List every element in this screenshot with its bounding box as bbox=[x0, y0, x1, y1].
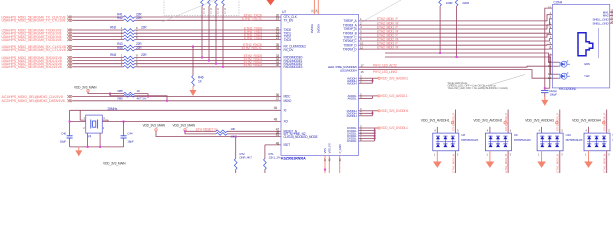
resistor R72 DNP_4K7 bbox=[234, 159, 237, 170]
wire bbox=[73, 32, 124, 34]
svg-text:22R: 22R bbox=[136, 46, 142, 50]
separator line bbox=[597, 28, 599, 58]
svg-text:22R: 22R bbox=[141, 53, 147, 57]
svg-text:12: 12 bbox=[548, 64, 552, 68]
LED green bbox=[552, 61, 558, 63]
junction bbox=[99, 146, 101, 148]
wire bbox=[135, 35, 282, 37]
wire stub top-left bbox=[489, 127, 491, 133]
wire to port bbox=[373, 95, 379, 97]
svg-text:YELLOW_LED: OFF = No activity: YELLOW_LED: OFF = No activity BLINKING =… bbox=[448, 86, 509, 90]
wire bbox=[264, 145, 266, 159]
wire bbox=[135, 66, 282, 68]
wire MDI stub bottom-right bbox=[507, 151, 509, 173]
svg-text:ETH2_MDI0_M: ETH2_MDI0_M bbox=[603, 153, 607, 172]
ground bbox=[78, 147, 80, 151]
wire bbox=[362, 35, 552, 38]
svg-text:PRTR5V0U2X: PRTR5V0U2X bbox=[566, 138, 583, 142]
svg-text:DVDDH: DVDDH bbox=[347, 114, 357, 118]
svg-text:RX_DV: RX_DV bbox=[284, 48, 295, 52]
wire bbox=[362, 19, 552, 25]
svg-text:VDD_3V3_DVDDH1: VDD_3V3_DVDDH1 bbox=[381, 109, 409, 113]
pin stub bbox=[359, 24, 363, 26]
svg-text:U10: U10 bbox=[566, 133, 572, 137]
pin stub bbox=[359, 40, 363, 42]
wire bbox=[362, 25, 552, 29]
svg-text:22R: 22R bbox=[136, 16, 142, 20]
svg-text:VDD_3V3_AVDDH3: VDD_3V3_AVDDH3 bbox=[525, 119, 554, 123]
wire bbox=[73, 16, 124, 18]
wire MDI stub top-right bbox=[559, 110, 561, 134]
svg-text:GRN: GRN bbox=[584, 62, 590, 66]
svg-text:25MHz: 25MHz bbox=[108, 107, 118, 111]
svg-text:18pF: 18pF bbox=[127, 140, 134, 144]
svg-text:MDIO: MDIO bbox=[284, 99, 292, 103]
bottom ground pins bbox=[324, 155, 326, 173]
svg-text:ETH2_MDI2_M: ETH2_MDI2_M bbox=[504, 153, 508, 172]
svg-text:U7: U7 bbox=[282, 10, 286, 14]
svg-text:R88: R88 bbox=[117, 89, 123, 93]
crystal Y4 25MHz bbox=[86, 115, 103, 133]
svg-text:PHY2_LED_LINK2: PHY2_LED_LINK2 bbox=[373, 70, 398, 74]
svg-text:DNP_4K7: DNP_4K7 bbox=[240, 156, 253, 160]
wire bbox=[201, 6, 203, 58]
svg-text:4K7 1%: 4K7 1% bbox=[137, 97, 147, 101]
connector CON4 box bbox=[552, 4, 609, 88]
wire bbox=[73, 39, 124, 41]
wire bbox=[135, 94, 149, 97]
svg-text:CON4: CON4 bbox=[554, 0, 563, 4]
wire bbox=[456, 6, 458, 57]
svg-text:RXD3/MODE3: RXD3/MODE3 bbox=[284, 65, 303, 69]
svg-text:ISET: ISET bbox=[284, 143, 291, 147]
svg-text:U5A/HPS_MDI2_5E1RGMII_RXD3/1V8: U5A/HPS_MDI2_5E1RGMII_RXD3/1V8 bbox=[2, 65, 62, 69]
resistor LED pullup 220R (cut) bbox=[455, 0, 458, 6]
wire reset bbox=[185, 130, 216, 132]
strap resistor (cut) bbox=[208, 0, 211, 6]
wire XI rail bbox=[70, 109, 281, 111]
ESD diode array U10 PRTR5V0U2X bbox=[537, 133, 563, 151]
svg-text:PRTR5V0U2X: PRTR5V0U2X bbox=[514, 138, 531, 142]
svg-text:14: 14 bbox=[548, 76, 552, 80]
bottom rail bbox=[70, 146, 124, 148]
pin stub bbox=[359, 36, 363, 38]
pin stub bbox=[359, 20, 363, 22]
wire stub top-left bbox=[541, 127, 543, 133]
svg-text:U5A/HPS_MDI2_5E1RGMII_TX_CTL/1: U5A/HPS_MDI2_5E1RGMII_TX_CTL/1V8 bbox=[2, 19, 66, 23]
svg-text:U8: U8 bbox=[461, 133, 465, 137]
svg-text:VSS_PS: VSS_PS bbox=[328, 143, 332, 153]
junction bbox=[439, 52, 441, 54]
resistor LED pullup 220R (cut) bbox=[439, 0, 442, 6]
wire bbox=[73, 66, 124, 68]
wire bbox=[362, 29, 552, 34]
junction bbox=[147, 96, 149, 98]
wire bbox=[385, 57, 552, 74]
junction bbox=[192, 46, 194, 48]
resistor R41 22R bbox=[124, 16, 135, 19]
svg-text:23: 23 bbox=[276, 36, 280, 40]
strap resistor (cut) bbox=[222, 0, 225, 6]
wire pin1 bbox=[80, 110, 86, 120]
wire bbox=[362, 39, 552, 41]
wire XO rail bbox=[70, 121, 281, 123]
wire bbox=[135, 16, 282, 18]
svg-text:VDD_3V3_MAIN: VDD_3V3_MAIN bbox=[103, 162, 126, 166]
svg-text:ETH2_TXCTL: ETH2_TXCTL bbox=[242, 17, 262, 21]
pin stub bbox=[359, 32, 363, 34]
resistor R43 22R bbox=[124, 45, 135, 48]
junction bbox=[235, 136, 237, 138]
svg-text:ETH2_MDI1_M: ETH2_MDI1_M bbox=[556, 153, 560, 172]
junction bbox=[109, 93, 111, 95]
resistor R71 12K1 1% bbox=[264, 159, 267, 170]
svg-text:DVDDL: DVDDL bbox=[347, 139, 357, 143]
resistor R89 1K bbox=[124, 94, 135, 97]
wire pin4 bbox=[99, 133, 101, 147]
svg-text:15: 15 bbox=[361, 70, 365, 74]
svg-text:C44: C44 bbox=[127, 132, 133, 136]
wire bbox=[73, 19, 124, 21]
resistor R45 22R bbox=[124, 48, 135, 51]
svg-text:VDD_3V3_MAIN: VDD_3V3_MAIN bbox=[173, 124, 196, 128]
wire bbox=[73, 35, 124, 37]
wire bbox=[208, 6, 210, 61]
wire bbox=[385, 53, 552, 62]
wire bbox=[73, 57, 124, 59]
resistor network RN3 4x22R bbox=[124, 56, 135, 59]
ESD diode array U9 PRTR5V0U2X bbox=[485, 133, 511, 151]
pin stub bbox=[359, 48, 363, 50]
svg-text:46: 46 bbox=[274, 106, 278, 110]
LED yellow bbox=[552, 73, 558, 75]
wire bbox=[235, 137, 237, 159]
svg-text:AVDDL: AVDDL bbox=[347, 97, 357, 101]
wire to port bbox=[373, 77, 379, 79]
svg-text:KRJ-320DNL: KRJ-320DNL bbox=[559, 87, 577, 91]
callout diagonal bbox=[362, 0, 401, 22]
resistor R47 10K bbox=[216, 130, 227, 133]
svg-text:VDD_3V3_AVDDH1: VDD_3V3_AVDDH1 bbox=[381, 76, 408, 80]
svg-text:KSZ9031RNXIA: KSZ9031RNXIA bbox=[281, 156, 306, 160]
wire bbox=[362, 15, 552, 21]
svg-text:R42: R42 bbox=[117, 16, 123, 20]
junction bbox=[222, 66, 224, 68]
svg-text:VDD_1V2_DVDDL1: VDD_1V2_DVDDL1 bbox=[381, 126, 408, 130]
wire to port bbox=[373, 110, 379, 112]
wire bbox=[135, 96, 168, 101]
wire bbox=[135, 60, 282, 62]
wire MDI stub top-right bbox=[455, 110, 457, 134]
wire ISET bbox=[265, 144, 281, 146]
junction bbox=[215, 63, 217, 65]
svg-text:AC2/HPS_MDIO_5E1@MDIO_DATA/1V8: AC2/HPS_MDIO_5E1@MDIO_DATA/1V8 bbox=[2, 99, 65, 103]
svg-text:DVDDH: DVDDH bbox=[310, 24, 314, 33]
ESD diode array U8 PRTR5V0U2X bbox=[433, 133, 459, 151]
wire bbox=[192, 47, 194, 76]
wire to port bbox=[375, 127, 378, 129]
wire bbox=[362, 48, 552, 50]
svg-text:VDD_3V3_AVDDH2: VDD_3V3_AVDDH2 bbox=[473, 119, 502, 123]
svg-text:10K: 10K bbox=[231, 127, 236, 131]
wire bbox=[73, 63, 124, 65]
svg-text:37: 37 bbox=[276, 97, 280, 101]
svg-text:ETH2_RXD3: ETH2_RXD3 bbox=[244, 63, 263, 67]
ground bbox=[436, 151, 438, 162]
wire bbox=[135, 32, 282, 34]
wire stub top-left bbox=[436, 127, 438, 133]
wire bbox=[135, 39, 282, 41]
wire MDI stub bottom-right bbox=[559, 151, 561, 173]
capacitor C42 bbox=[541, 89, 549, 91]
svg-text:VDD_3V3_AVDDH1: VDD_3V3_AVDDH1 bbox=[421, 119, 450, 123]
wire bbox=[215, 6, 217, 64]
power symbol (cut) bbox=[267, 0, 275, 5]
resistor R46 1K bbox=[192, 76, 195, 87]
pin stub bbox=[359, 44, 363, 46]
svg-text:U5A/HPS_MDI2_5E1RGMII_TXD3/1V8: U5A/HPS_MDI2_5E1RGMII_TXD3/1V8 bbox=[2, 38, 62, 42]
ground bbox=[489, 151, 491, 162]
svg-text:30: 30 bbox=[276, 63, 280, 67]
strap resistor (cut) bbox=[201, 0, 204, 6]
resistor R88 1K bbox=[124, 92, 135, 95]
svg-text:PRTR5V0U2X: PRTR5V0U2X bbox=[461, 138, 478, 142]
svg-text:P_GND: P_GND bbox=[338, 144, 342, 153]
junction bbox=[456, 56, 458, 58]
wire bbox=[135, 57, 282, 59]
op IC U7 KSZ9031RNXIA box bbox=[281, 14, 359, 155]
svg-text:U9: U9 bbox=[514, 133, 518, 137]
svg-text:U5A/HPS_MDI2_5E1RGMII_RX_CTL/1: U5A/HPS_MDI2_5E1RGMII_RX_CTL/1V8 bbox=[2, 48, 66, 52]
wire bbox=[222, 6, 224, 67]
svg-text:48: 48 bbox=[274, 117, 278, 121]
wire bbox=[362, 44, 552, 47]
junction bbox=[87, 146, 89, 148]
ground bbox=[192, 87, 194, 91]
wire bbox=[73, 100, 282, 102]
wire bbox=[110, 93, 124, 95]
svg-text:TXRXM_D: TXRXM_D bbox=[343, 47, 358, 51]
svg-text:ETH2_MDI3_M: ETH2_MDI3_M bbox=[451, 153, 455, 172]
RJ45 jack icon bbox=[578, 33, 593, 56]
wire stub top-left bbox=[588, 127, 590, 133]
svg-text:Y4: Y4 bbox=[88, 135, 92, 139]
svg-text:34: 34 bbox=[276, 46, 280, 50]
svg-text:22R: 22R bbox=[141, 26, 147, 30]
wire MDI stub bottom-right bbox=[455, 151, 457, 173]
svg-text:TXD3: TXD3 bbox=[284, 38, 292, 42]
svg-text:48: 48 bbox=[276, 141, 280, 145]
wire MDI stub top-right bbox=[507, 110, 509, 134]
wire bbox=[88, 92, 110, 94]
length matching dashed box bbox=[164, 0, 239, 16]
svg-text:CLK125_NDO/LED_MODE: CLK125_NDO/LED_MODE bbox=[284, 135, 318, 139]
resistor network RN2 4x22R bbox=[124, 29, 135, 32]
svg-text:220R: 220R bbox=[462, 1, 470, 5]
svg-text:VDD_1V2_AVDDL1: VDD_1V2_AVDDL1 bbox=[381, 94, 408, 98]
ESD diode array U11 PRTR5V0U2X bbox=[584, 133, 610, 151]
callout diagonal bbox=[162, 0, 215, 22]
svg-text:12K1_1%: 12K1_1% bbox=[269, 156, 281, 160]
svg-text:10K: 10K bbox=[231, 135, 236, 139]
wire bbox=[73, 49, 124, 51]
svg-text:R89: R89 bbox=[117, 96, 123, 100]
wire bbox=[227, 133, 281, 135]
svg-text:18pF: 18pF bbox=[60, 140, 67, 144]
svg-text:TX_EN: TX_EN bbox=[284, 19, 294, 23]
junction bbox=[69, 121, 71, 123]
wire MDI stub bottom-right bbox=[606, 151, 608, 173]
svg-text:AVDDH: AVDDH bbox=[347, 81, 357, 85]
wire bbox=[135, 29, 282, 31]
wire bbox=[110, 94, 124, 96]
wire pin3 bbox=[102, 120, 108, 121]
leader line bbox=[480, 75, 525, 89]
junction bbox=[123, 121, 125, 123]
junction bbox=[184, 130, 186, 132]
svg-text:1K: 1K bbox=[137, 89, 141, 93]
svg-text:10: 10 bbox=[548, 6, 552, 10]
svg-text:C40: C40 bbox=[61, 132, 67, 136]
svg-text:100pF: 100pF bbox=[550, 93, 558, 97]
wire bbox=[73, 60, 124, 62]
strap resistor (cut) bbox=[215, 0, 218, 6]
pin stub bbox=[359, 28, 363, 30]
resistor R42 22R bbox=[124, 19, 135, 22]
wire CLK125 bbox=[240, 136, 281, 138]
svg-text:ETH2_TXD3: ETH2_TXD3 bbox=[244, 36, 262, 40]
wire bbox=[73, 96, 282, 98]
ground bbox=[541, 151, 543, 162]
ground bbox=[544, 96, 546, 100]
wire bbox=[439, 6, 441, 53]
junction bbox=[208, 60, 210, 62]
capacitor C40 18pF bbox=[69, 110, 71, 136]
svg-text:RN3: RN3 bbox=[110, 53, 116, 57]
wire bbox=[227, 130, 281, 132]
wire bbox=[73, 29, 124, 31]
svg-text:VDD_3V3_MAIN: VDD_3V3_MAIN bbox=[143, 124, 166, 128]
resistor R48 10K bbox=[216, 133, 227, 136]
svg-text:VDD_3V3_MAIN: VDD_3V3_MAIN bbox=[74, 86, 97, 90]
svg-text:R45: R45 bbox=[117, 46, 123, 50]
svg-text:220R: 220R bbox=[446, 1, 454, 5]
svg-text:RN2: RN2 bbox=[110, 26, 116, 30]
svg-text:41: 41 bbox=[276, 133, 280, 137]
svg-text:ETH2_RXCTL: ETH2_RXCTL bbox=[242, 46, 263, 50]
svg-text:19: 19 bbox=[276, 17, 280, 21]
svg-text:XO: XO bbox=[284, 120, 289, 124]
svg-text:DVDDH: DVDDH bbox=[316, 24, 320, 33]
svg-text:ETH_RESET_N: ETH_RESET_N bbox=[196, 127, 218, 131]
junction bbox=[201, 57, 203, 59]
junction bbox=[324, 169, 326, 171]
junction bbox=[166, 100, 168, 102]
wire bbox=[135, 46, 282, 48]
wire bbox=[135, 19, 282, 21]
wire bbox=[135, 63, 282, 65]
wire MDI stub top-right bbox=[606, 110, 608, 134]
wire bbox=[135, 49, 282, 51]
wire bbox=[73, 46, 124, 48]
svg-text:SHELL_GND: SHELL_GND bbox=[592, 21, 609, 25]
wire pin2 bbox=[87, 133, 89, 147]
svg-text:YLW: YLW bbox=[584, 74, 590, 78]
top power pins bbox=[313, 0, 315, 14]
svg-text:VDD_3V3_AVDDH4: VDD_3V3_AVDDH4 bbox=[572, 119, 601, 123]
svg-text:XI: XI bbox=[284, 109, 287, 113]
svg-text:LED2/MODE4: LED2/MODE4 bbox=[340, 68, 357, 72]
ground bbox=[588, 151, 590, 162]
